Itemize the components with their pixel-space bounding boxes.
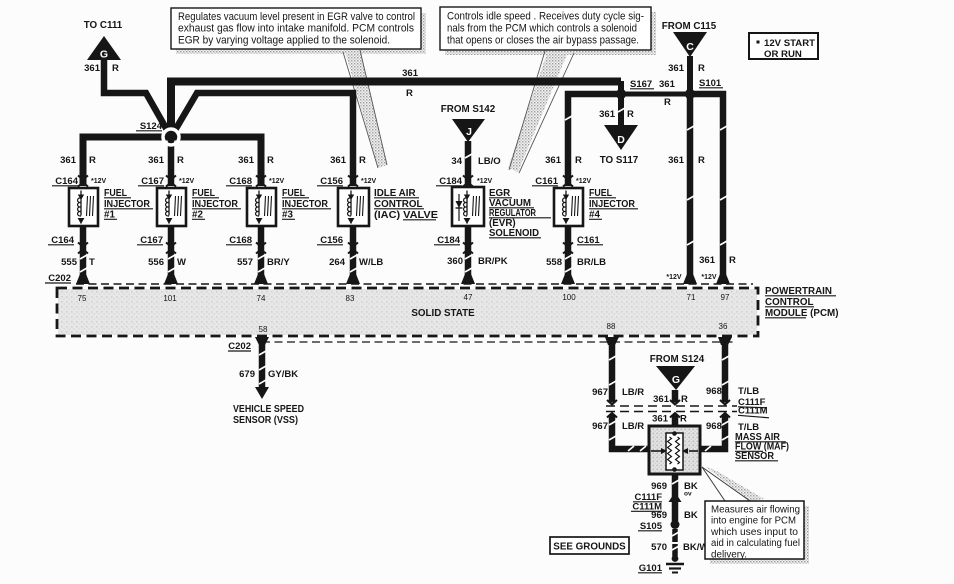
svg-text:969: 969 bbox=[651, 510, 667, 521]
svg-text:R: R bbox=[681, 394, 688, 405]
wire label 969 BK ov bbox=[651, 481, 698, 498]
connector C161 bottom bbox=[563, 235, 603, 254]
node label S167 bbox=[630, 79, 654, 90]
svg-text:555: 555 bbox=[61, 257, 78, 268]
wire label 361 R (inj2) bbox=[148, 155, 184, 166]
wire label 360 BR/PK bbox=[447, 256, 508, 267]
connector C156 bottom bbox=[317, 235, 358, 254]
pin 83 bbox=[346, 294, 355, 303]
connector C202 plane dashed line at PCM top bbox=[76, 283, 753, 285]
label *12V (pin71) bbox=[666, 274, 682, 281]
callout 2 box: Controls idle speed ... bbox=[440, 7, 651, 50]
label POWERTRAIN CONTROL MODULE (PCM) bbox=[765, 286, 838, 319]
wire label 967 LB/R (above break) bbox=[592, 387, 644, 398]
svg-text:R: R bbox=[680, 414, 687, 425]
svg-text:R: R bbox=[112, 63, 119, 74]
node label S101 bbox=[699, 78, 723, 89]
pin 58 bbox=[259, 325, 268, 334]
svg-text:Controls idle speed . Receive: Controls idle speed . Receives duty cycl… bbox=[447, 11, 644, 23]
arrow TO C111 (G) bbox=[84, 20, 123, 61]
svg-text:T: T bbox=[89, 257, 95, 268]
svg-text:*12V: *12V bbox=[361, 178, 377, 185]
label VEHICLE SPEED SENSOR (VSS) bbox=[233, 404, 304, 426]
wire label 361 R (above break) bbox=[653, 394, 688, 405]
svg-text:47: 47 bbox=[464, 293, 473, 302]
svg-text:360: 360 bbox=[447, 256, 463, 267]
svg-text:R: R bbox=[575, 155, 582, 166]
wire flares at PCM bottom connector bbox=[255, 337, 732, 345]
svg-text:361: 361 bbox=[652, 414, 669, 425]
ground G101 bbox=[638, 555, 684, 574]
svg-text:G: G bbox=[100, 49, 108, 61]
svg-text:361: 361 bbox=[659, 79, 676, 90]
svg-text:71: 71 bbox=[687, 293, 696, 302]
connector C202 plane dashed line at PCM bottom bbox=[262, 341, 737, 343]
svg-text:*12V: *12V bbox=[179, 178, 195, 185]
wire label 361 R (inj3) bbox=[238, 155, 274, 166]
svg-text:C111M: C111M bbox=[738, 406, 768, 417]
svg-text:which uses input to: which uses input to bbox=[710, 527, 798, 538]
wire label 558 BR/LB bbox=[546, 257, 606, 268]
svg-text:12V START: 12V START bbox=[764, 38, 815, 49]
svg-text:J: J bbox=[466, 126, 472, 138]
svg-text:570: 570 bbox=[651, 542, 667, 553]
svg-text:74: 74 bbox=[257, 294, 266, 303]
wire label R (top bus) bbox=[406, 88, 413, 99]
callout 2 shadow bbox=[445, 12, 656, 55]
callout 1 pointer tail bbox=[343, 50, 387, 168]
wire label 557 BR/Y bbox=[237, 257, 290, 268]
svg-text:361: 361 bbox=[668, 63, 685, 74]
connector C156 top bbox=[317, 176, 377, 188]
label FUEL INJECTOR #3 bbox=[282, 188, 331, 221]
svg-text:361: 361 bbox=[84, 63, 101, 74]
svg-text:R: R bbox=[698, 63, 705, 74]
svg-text:361: 361 bbox=[238, 155, 255, 166]
pin 88 bbox=[607, 322, 616, 331]
label EGR VACUUM REGULATOR (EVR) SOLENOID bbox=[489, 188, 551, 239]
wire label 679 GY/BK bbox=[239, 369, 298, 380]
svg-text:*12V: *12V bbox=[269, 178, 285, 185]
svg-text:88: 88 bbox=[607, 322, 616, 331]
wire label 361 R (pin97 drop) bbox=[699, 255, 736, 266]
wire: injector 3 to PCM pin 74 bbox=[258, 226, 265, 280]
arrow FROM S124 (G) bbox=[650, 354, 705, 390]
wire: MAF sensor to S105 bbox=[672, 474, 679, 521]
fuel injector 4 bbox=[554, 188, 583, 226]
wire: J triangle to EGR solenoid bbox=[465, 141, 472, 186]
wire: drop from S124 to injector 2 bbox=[168, 137, 175, 186]
svg-text:556: 556 bbox=[148, 257, 164, 268]
callout 2 pointer tail bbox=[508, 50, 574, 173]
wire label 361 R (inj4) bbox=[545, 155, 582, 166]
node S167 bbox=[616, 89, 626, 99]
svg-text:557: 557 bbox=[237, 257, 253, 268]
svg-text:R: R bbox=[729, 255, 736, 266]
svg-text:C202: C202 bbox=[48, 273, 71, 284]
arrow FROM C115 (C) bbox=[662, 21, 717, 57]
wire label 361 R (IAC) bbox=[330, 155, 366, 166]
svg-text:C202: C202 bbox=[228, 341, 251, 352]
svg-text:361: 361 bbox=[60, 155, 77, 166]
svg-text:34: 34 bbox=[451, 156, 462, 167]
callout 1 shadow bbox=[176, 13, 426, 54]
svg-text:BR/LB: BR/LB bbox=[577, 257, 606, 268]
wire: S101 down to PCM pin 71 bbox=[687, 94, 694, 280]
node label S124 bbox=[136, 121, 163, 132]
connector C111 break dashed lines bbox=[606, 403, 737, 415]
svg-text:361: 361 bbox=[545, 155, 562, 166]
node S105 bbox=[638, 520, 680, 532]
wire: PCM pin 88 to MAF sensor left bbox=[612, 340, 649, 449]
svg-text:G: G bbox=[672, 374, 680, 386]
svg-text:BK: BK bbox=[684, 510, 698, 521]
label *12V (pin97) bbox=[701, 274, 717, 281]
pin 71 bbox=[687, 293, 696, 302]
wire: injector 1 to PCM pin 75 bbox=[80, 226, 87, 280]
svg-text:Regulates vacuum level present: Regulates vacuum level present in EGR va… bbox=[178, 11, 415, 23]
svg-text:LB/R: LB/R bbox=[622, 421, 644, 432]
label C202 at PCM top left bbox=[45, 273, 71, 284]
wire label 361 R (inj1) bbox=[60, 155, 96, 166]
svg-text:TO C111: TO C111 bbox=[84, 20, 123, 31]
svg-text:83: 83 bbox=[346, 294, 355, 303]
wire label 361 R (D drop) bbox=[599, 109, 634, 120]
fuel injector 2 bbox=[157, 188, 186, 226]
wire label 264 W/LB bbox=[329, 257, 383, 268]
svg-text:*12V: *12V bbox=[701, 274, 717, 281]
pin 74 bbox=[257, 294, 266, 303]
wire: PCM pin 36 to MAF sensor right bbox=[700, 340, 725, 449]
svg-text:968: 968 bbox=[706, 421, 722, 432]
svg-text:558: 558 bbox=[546, 257, 562, 268]
wire: G1 arrow to S124 junction bbox=[104, 59, 171, 137]
wire label R (S167-S101) bbox=[664, 97, 671, 108]
svg-text:361: 361 bbox=[148, 155, 165, 166]
wire: S101 right and down to PCM pin 97 bbox=[690, 94, 723, 280]
wire: EGR solenoid to PCM pin 47 bbox=[465, 226, 472, 280]
wire: S167 to S101 bbox=[621, 92, 690, 97]
svg-text:969: 969 bbox=[651, 481, 667, 492]
svg-text:into engine for PCM: into engine for PCM bbox=[711, 516, 796, 527]
svg-text:967: 967 bbox=[592, 387, 608, 398]
svg-text:LB/R: LB/R bbox=[622, 387, 644, 398]
svg-text:aid in calculating fuel: aid in calculating fuel bbox=[711, 538, 800, 549]
pin 101 bbox=[163, 294, 177, 303]
svg-text:nals from the PCM which contro: nals from the PCM which controls a solen… bbox=[447, 23, 637, 35]
wire label 361 R (C drop) bbox=[668, 63, 705, 74]
svg-text:264: 264 bbox=[329, 257, 346, 268]
svg-text:BR/Y: BR/Y bbox=[267, 257, 290, 268]
svg-text:R: R bbox=[359, 155, 366, 166]
wire label 968 T/LB (below break) bbox=[706, 421, 759, 433]
label FUEL INJECTOR #1 bbox=[104, 188, 153, 221]
wire label 967 LB/R (below break) bbox=[592, 421, 644, 432]
wire: top 361 bus from S124 to S167 bbox=[171, 81, 621, 137]
wire label 361 (S167-S101) bbox=[659, 79, 676, 90]
svg-text:EGR by varying voltage applied: EGR by varying voltage applied to the so… bbox=[178, 34, 390, 46]
callout 3 box: Measures air flowing ... bbox=[705, 501, 804, 560]
PCM module body bbox=[57, 288, 758, 336]
connector C184 bottom bbox=[434, 235, 473, 254]
svg-text:*12V: *12V bbox=[576, 178, 592, 185]
label IDLE AIR CONTROL (IAC) VALVE bbox=[374, 188, 439, 221]
svg-text:R: R bbox=[664, 97, 671, 108]
svg-text:D: D bbox=[617, 134, 625, 146]
wire label 969 BK bbox=[651, 510, 698, 521]
arrow FROM S142 (J) bbox=[441, 104, 496, 142]
label SOLID STATE bbox=[411, 308, 475, 319]
pin 47 bbox=[464, 293, 473, 302]
label MASS AIR FLOW (MAF) SENSOR bbox=[735, 432, 789, 462]
svg-text:R: R bbox=[627, 109, 634, 120]
fuel injector 1 bbox=[69, 188, 98, 226]
wire: injector 4 to PCM pin 100 bbox=[565, 226, 572, 280]
svg-text:361: 361 bbox=[402, 68, 419, 79]
svg-text:R: R bbox=[89, 155, 96, 166]
svg-text:968: 968 bbox=[706, 386, 722, 397]
pin 97 bbox=[721, 293, 730, 302]
svg-text:Measures air flowing: Measures air flowing bbox=[711, 505, 800, 516]
svg-text:OR RUN: OR RUN bbox=[764, 49, 802, 60]
svg-text:75: 75 bbox=[78, 294, 87, 303]
svg-text:GY/BK: GY/BK bbox=[268, 369, 298, 380]
svg-text:967: 967 bbox=[592, 421, 608, 432]
svg-text:ov: ov bbox=[684, 491, 692, 498]
wire label 361 (top bus) bbox=[402, 68, 419, 79]
wire label 556 W bbox=[148, 257, 186, 268]
svg-text:FROM S124: FROM S124 bbox=[650, 354, 705, 365]
connector C161 top bbox=[532, 176, 592, 188]
svg-text:58: 58 bbox=[259, 325, 268, 334]
svg-text:BR/PK: BR/PK bbox=[478, 256, 508, 267]
svg-text:*12V: *12V bbox=[91, 178, 107, 185]
svg-text:361: 361 bbox=[668, 155, 685, 166]
svg-text:R: R bbox=[267, 155, 274, 166]
pin 75 bbox=[78, 294, 87, 303]
connector C184 top bbox=[436, 176, 493, 188]
node S124 bbox=[163, 129, 179, 145]
wire label 968 T/LB (above break) bbox=[706, 386, 759, 397]
wire label 570 BK/W bbox=[651, 542, 708, 553]
connector C167 top bbox=[138, 176, 195, 188]
note box SEE GROUNDS bbox=[550, 537, 629, 554]
svg-text:delivery.: delivery. bbox=[711, 549, 747, 560]
svg-text:that opens or closes the air b: that opens or closes the air bypass pass… bbox=[447, 35, 639, 47]
pin 36 bbox=[719, 322, 728, 331]
svg-text:T/LB: T/LB bbox=[738, 386, 759, 397]
label FUEL INJECTOR #2 bbox=[192, 188, 241, 221]
svg-text:C: C bbox=[686, 41, 694, 53]
callout 1 box: Regulates vacuum level ... bbox=[171, 8, 421, 49]
wire: injector 2 to PCM pin 101 bbox=[168, 226, 175, 280]
connector C167 bottom bbox=[137, 235, 176, 254]
svg-text:361: 361 bbox=[330, 155, 347, 166]
pin 100 bbox=[562, 293, 576, 302]
svg-text:36: 36 bbox=[719, 322, 728, 331]
svg-text:R: R bbox=[698, 155, 705, 166]
mass air flow sensor bbox=[649, 426, 700, 474]
svg-text:W: W bbox=[177, 257, 186, 268]
callout 3 pointer tail bbox=[702, 467, 764, 501]
label C164 top bbox=[52, 176, 107, 187]
svg-text:361: 361 bbox=[653, 394, 670, 405]
12V START OR RUN note box bbox=[749, 33, 818, 60]
wire label 361 R (S101 drop) bbox=[668, 155, 705, 166]
wire: S101 up to C triangle bbox=[687, 56, 693, 94]
svg-text:SENSOR (VSS): SENSOR (VSS) bbox=[233, 415, 298, 426]
node S101 bbox=[685, 89, 695, 99]
wire label 555 T bbox=[61, 257, 95, 268]
svg-text:VEHICLE SPEED: VEHICLE SPEED bbox=[233, 404, 304, 415]
wire label 34 LB/O bbox=[451, 156, 500, 167]
label C202 at PCM bottom bbox=[228, 341, 251, 352]
connector label C111F C111M (right) bbox=[738, 397, 769, 418]
svg-text:361: 361 bbox=[599, 109, 616, 120]
svg-text:R: R bbox=[177, 155, 184, 166]
wire: diagonal bus from S124 to IAC valve bbox=[171, 93, 353, 186]
svg-text:LB/O: LB/O bbox=[478, 156, 501, 167]
connector hooks at break bbox=[607, 400, 730, 418]
wire: S105 to G101 ground bbox=[672, 529, 678, 556]
svg-text:TO S117: TO S117 bbox=[600, 155, 639, 166]
connector C164 bottom bbox=[48, 235, 88, 254]
connector C164 top (hooks on wire) bbox=[78, 176, 88, 187]
wire: PCM pin 58 to vehicle speed sensor bbox=[255, 340, 269, 399]
svg-text:*12V: *12V bbox=[666, 274, 682, 281]
label FUEL INJECTOR #4 bbox=[589, 188, 638, 221]
svg-text:SEE GROUNDS: SEE GROUNDS bbox=[553, 542, 626, 553]
wire: injector feed bus with risers to injector 1 and 3 bbox=[83, 137, 261, 186]
svg-text:679: 679 bbox=[239, 369, 255, 380]
svg-text:R: R bbox=[406, 88, 413, 99]
svg-text:W/LB: W/LB bbox=[359, 257, 383, 268]
fuel injector 3 bbox=[247, 188, 276, 226]
wire flares at PCM top connector bbox=[76, 274, 730, 284]
wire: injector 4 riser to S167 bbox=[568, 94, 621, 186]
svg-text:exhaust gas flow into intake m: exhaust gas flow into intake manifold. P… bbox=[178, 23, 414, 35]
svg-text:97: 97 bbox=[721, 293, 730, 302]
wire label 361 R (G1 drop) bbox=[84, 63, 119, 74]
connector C168 bottom bbox=[226, 235, 266, 254]
svg-text:FROM S142: FROM S142 bbox=[441, 104, 496, 115]
wire: G triangle to MAF sensor bbox=[672, 390, 679, 428]
wire: IAC valve to PCM pin 83 bbox=[350, 226, 357, 280]
svg-text:101: 101 bbox=[163, 294, 177, 303]
EGR vacuum regulator (EVR) solenoid bbox=[452, 187, 484, 226]
svg-text:361: 361 bbox=[699, 255, 716, 266]
connector C111F C111M arrow bbox=[631, 492, 682, 513]
svg-text:SOLID STATE: SOLID STATE bbox=[411, 308, 475, 319]
connector C168 top bbox=[226, 176, 285, 188]
arrow TO S117 (D) bbox=[600, 125, 639, 166]
svg-text:*12V: *12V bbox=[477, 178, 493, 185]
wire nick marks (white slashes on thick wires) bbox=[80, 108, 729, 550]
callout 3 shadow bbox=[710, 506, 809, 564]
svg-text:FROM C115: FROM C115 bbox=[662, 21, 717, 32]
IAC valve bbox=[338, 188, 369, 226]
svg-text:100: 100 bbox=[562, 293, 576, 302]
wire: S167 down to D triangle bbox=[618, 91, 624, 126]
wire label 361 R (below break) bbox=[652, 414, 687, 425]
